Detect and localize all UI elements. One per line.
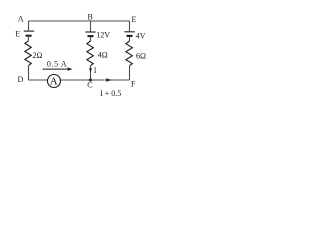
svg-text:A: A: [50, 76, 58, 88]
wire right branch upper from E corner: [129, 21, 131, 31]
current arrow I head (down): [89, 68, 92, 73]
current arrow I+0.5 head (right): [106, 78, 112, 82]
svg-text:E: E: [15, 29, 20, 38]
wire resistor 4ohm to node C: [90, 66, 92, 80]
wire resistor 6ohm to F: [129, 66, 131, 80]
svg-text:0.5 A: 0.5 A: [47, 60, 67, 69]
svg-text:I: I: [94, 66, 97, 75]
svg-text:6Ω: 6Ω: [136, 52, 146, 61]
svg-text:I + 0.5: I + 0.5: [100, 89, 121, 98]
svg-text:4Ω: 4Ω: [98, 51, 108, 60]
svg-text:F: F: [131, 80, 136, 89]
svg-text:2Ω: 2Ω: [33, 51, 43, 60]
resistor 4ohm zigzag: [87, 41, 93, 66]
wire bottom D to ammeter: [29, 79, 48, 81]
battery E long plate: [24, 30, 35, 32]
current arrow 0.5 A head: [67, 67, 72, 71]
battery 4V long plate: [124, 31, 134, 33]
ammeter circle: [48, 75, 61, 88]
battery 12V short plate: [88, 35, 94, 37]
wire battery to resistor left: [28, 37, 30, 41]
battery E short plate: [26, 35, 32, 37]
resistor R 2ohm zigzag: [25, 41, 31, 66]
wire ammeter to node C: [60, 79, 91, 81]
wire left branch upper: [28, 21, 30, 31]
wire bottom C to F corner: [91, 79, 130, 81]
resistor 6ohm zigzag: [126, 41, 132, 66]
svg-text:B: B: [88, 13, 93, 22]
svg-text:A: A: [18, 14, 24, 23]
svg-text:E: E: [132, 15, 137, 24]
wire 12V battery to resistor: [90, 37, 92, 41]
junction dot node C: [89, 79, 92, 82]
wire resistor to D: [28, 66, 30, 80]
battery 12V long plate: [85, 31, 95, 33]
wire top AB: [29, 20, 130, 22]
svg-text:4V: 4V: [136, 31, 146, 40]
battery 4V short plate: [127, 35, 133, 37]
svg-text:D: D: [18, 75, 24, 84]
current arrow 0.5 A line: [43, 68, 71, 70]
wire middle branch upper from B: [90, 21, 92, 32]
svg-text:12V: 12V: [96, 31, 110, 40]
wire 4V battery to resistor: [129, 37, 131, 41]
svg-text:C: C: [87, 81, 92, 90]
